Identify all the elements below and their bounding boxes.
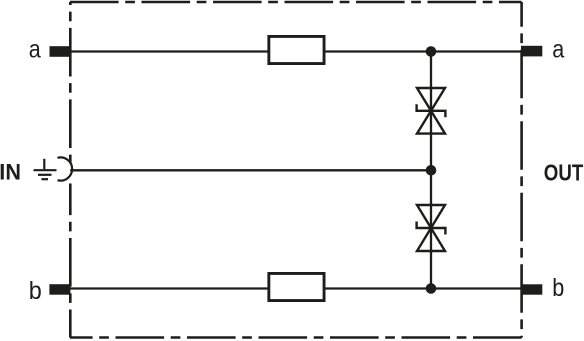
node dot ground line / trunk	[426, 165, 437, 176]
wire line b: left terminal to right terminal	[70, 287, 521, 289]
svg-text:IN: IN	[0, 159, 21, 184]
TVS suppressor diode D1 (bidirectional)	[417, 88, 446, 134]
enclosure outline left edge upper (dash-dot)	[69, 2, 72, 163]
node dot line b / trunk	[426, 283, 437, 294]
node dot line a / trunk	[426, 46, 437, 57]
terminal a OUT (solid block)	[521, 46, 542, 57]
TVS suppressor diode D2 (bidirectional)	[417, 205, 446, 251]
label b (IN, line b)	[29, 277, 42, 305]
arc: isolating spark-gap to enclosure at IN	[58, 157, 73, 180]
wire line a: left terminal to right terminal	[70, 50, 521, 52]
label a (OUT, line a)	[552, 36, 564, 64]
svg-text:OUT: OUT	[544, 160, 584, 186]
terminal b OUT (solid block)	[521, 284, 542, 294]
svg-text:b: b	[552, 274, 564, 302]
label a (IN, line a)	[29, 36, 41, 64]
svg-text:a: a	[29, 36, 41, 64]
svg-text:a: a	[552, 36, 564, 64]
ground symbol (earth)	[34, 159, 57, 179]
enclosure outline right edge (dash-dot)	[520, 2, 523, 338]
label OUT	[544, 160, 584, 186]
wire ground line to trunk	[70, 169, 431, 171]
enclosure outline top edge (dash-dot)	[70, 1, 522, 4]
label IN	[0, 159, 21, 184]
terminal b IN (solid block)	[49, 284, 70, 295]
resistor (series impedance, line a)	[269, 36, 324, 63]
enclosure outline bottom edge (dash-dot)	[70, 336, 522, 339]
svg-text:b: b	[29, 277, 42, 305]
terminal a IN (solid block)	[50, 46, 71, 57]
wire vertical trunk through TVS diodes	[430, 52, 432, 289]
resistor (series impedance, line b)	[269, 273, 324, 300]
enclosure outline left edge lower (dash-dot)	[69, 184, 72, 338]
label b (OUT, line b)	[552, 274, 564, 302]
